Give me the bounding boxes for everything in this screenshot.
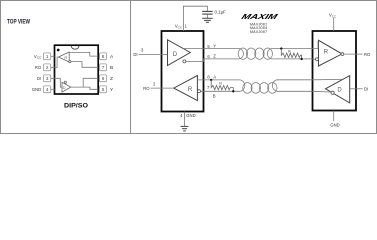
svg-text:VCC: VCC — [34, 54, 42, 60]
svg-text:R: R — [64, 55, 67, 60]
svg-text:GND: GND — [32, 87, 41, 92]
svg-text:TOP VIEW: TOP VIEW — [7, 19, 30, 26]
svg-text:Z: Z — [110, 76, 113, 82]
svg-text:D: D — [337, 88, 342, 94]
svg-text:MAX3087: MAX3087 — [250, 30, 268, 34]
svg-text:RO: RO — [143, 86, 150, 91]
svg-text:2: 2 — [46, 65, 49, 70]
svg-text:7: 7 — [102, 65, 105, 70]
svg-text:R: R — [288, 49, 291, 53]
svg-text:GND: GND — [186, 113, 195, 118]
svg-text:VCC: VCC — [329, 13, 337, 19]
svg-text:A: A — [213, 74, 216, 79]
svg-text:0.1µF: 0.1µF — [215, 10, 227, 15]
svg-text:R: R — [219, 81, 222, 85]
svg-text:D: D — [63, 85, 66, 90]
svg-text:R: R — [324, 49, 329, 55]
svg-text:DI: DI — [364, 87, 368, 92]
svg-text:DI: DI — [37, 76, 41, 81]
svg-text:6: 6 — [102, 76, 105, 81]
svg-text:8: 8 — [102, 54, 105, 59]
svg-text:MAXIM: MAXIM — [240, 12, 280, 21]
svg-text:3: 3 — [46, 76, 49, 81]
svg-text:DI: DI — [133, 52, 137, 57]
svg-text:VCC: VCC — [175, 24, 183, 30]
svg-text:R: R — [188, 87, 193, 93]
svg-text:4: 4 — [46, 87, 49, 92]
svg-text:Z: Z — [213, 54, 216, 59]
svg-text:GND: GND — [330, 123, 339, 128]
svg-text:1: 1 — [46, 54, 49, 59]
svg-text:RO: RO — [35, 65, 42, 70]
svg-text:Y: Y — [213, 44, 216, 49]
svg-text:RO: RO — [364, 52, 371, 57]
svg-text:5: 5 — [102, 87, 105, 92]
svg-text:B: B — [110, 65, 113, 71]
svg-text:B: B — [213, 94, 216, 99]
svg-text:DIP/SO: DIP/SO — [64, 103, 88, 110]
svg-text:D: D — [173, 52, 178, 58]
